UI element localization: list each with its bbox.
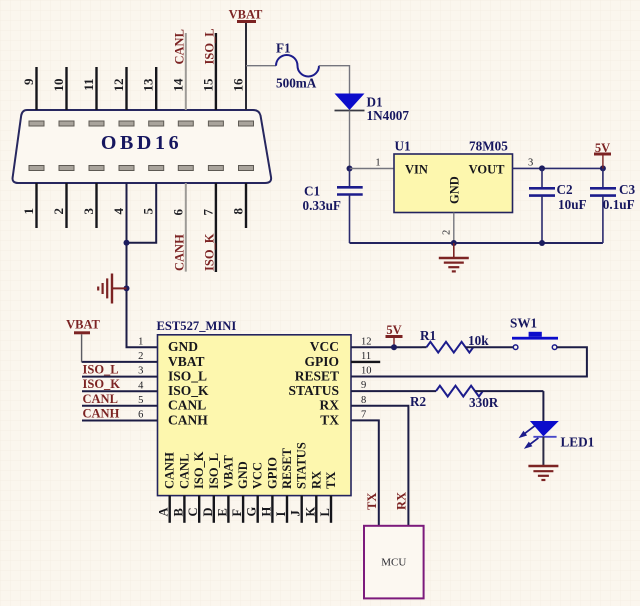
junction pin4/pin5: [124, 240, 130, 246]
wire SW1 to RESET pin 10: [351, 347, 587, 376]
svg-text:1: 1: [138, 337, 143, 348]
pin 9: [21, 67, 37, 110]
U2 bottom pin K: [303, 496, 317, 523]
svg-text:ISO_K: ISO_K: [202, 233, 216, 271]
capacitor C1 0.33uF: [303, 169, 363, 244]
pin 4 wire down to U2 pin1: [111, 183, 158, 347]
wire fuse to D1: [319, 66, 350, 94]
U2 bottom pin L: [318, 496, 332, 523]
U2 pin names right: [288, 339, 339, 427]
svg-text:ISO_K: ISO_K: [83, 377, 121, 391]
svg-text:0.1uF: 0.1uF: [603, 197, 635, 212]
svg-text:GND: GND: [168, 339, 198, 354]
pin 6 wire (CANH): [170, 183, 186, 272]
wire LED1 to ground: [542, 437, 544, 465]
svg-text:1: 1: [375, 158, 380, 169]
U1 pin 2 wire: [442, 213, 454, 244]
svg-text:CANL: CANL: [172, 29, 186, 64]
power port 5V (left of R1): [386, 323, 403, 347]
svg-text:1N4007: 1N4007: [367, 108, 410, 123]
power port VBAT (top): [229, 8, 263, 22]
pin 11: [81, 67, 97, 110]
resistor R1 10k: [420, 328, 513, 353]
svg-text:ISO_K: ISO_K: [168, 383, 209, 398]
svg-text:5: 5: [138, 395, 143, 406]
U2 pin names left: [168, 339, 209, 427]
wire D1 to VIN node: [349, 111, 351, 169]
switch SW1: [510, 316, 558, 350]
svg-text:8: 8: [231, 208, 246, 215]
pin 8: [231, 183, 247, 228]
svg-text:TX: TX: [320, 412, 339, 427]
svg-text:ISO_L: ISO_L: [207, 453, 221, 489]
junction C2 bottom: [539, 240, 545, 246]
svg-text:9: 9: [21, 78, 36, 85]
svg-text:330R: 330R: [469, 395, 499, 410]
svg-text:STATUS: STATUS: [295, 442, 309, 489]
svg-text:10: 10: [51, 79, 66, 92]
svg-text:CANL: CANL: [177, 454, 191, 489]
svg-text:0.33uF: 0.33uF: [303, 198, 341, 213]
svg-text:12: 12: [361, 336, 372, 347]
svg-text:VBAT: VBAT: [168, 354, 205, 369]
capacitor C3 0.1uF: [590, 168, 636, 243]
U2 pin 7 wire TX to MCU: [351, 410, 379, 526]
pin 5 wire: [127, 183, 157, 243]
svg-text:U1: U1: [395, 139, 411, 154]
svg-text:A: A: [157, 507, 171, 516]
svg-text:TX: TX: [365, 493, 379, 510]
svg-text:RX: RX: [320, 398, 340, 413]
junction U1 GND / rail: [451, 240, 457, 246]
svg-text:L: L: [318, 508, 332, 516]
svg-text:6: 6: [170, 209, 185, 216]
svg-text:VCC: VCC: [251, 462, 265, 489]
svg-text:GPIO: GPIO: [304, 354, 339, 369]
svg-text:12: 12: [111, 79, 126, 92]
svg-text:GND: GND: [236, 461, 250, 489]
svg-text:GPIO: GPIO: [265, 457, 279, 489]
svg-text:CANH: CANH: [163, 452, 177, 489]
svg-text:7: 7: [361, 410, 366, 421]
svg-text:RESET: RESET: [280, 447, 294, 489]
svg-text:STATUS: STATUS: [288, 383, 339, 398]
pin 14 wire (CANL): [170, 33, 186, 110]
U2 bottom pin F: [230, 496, 244, 523]
svg-text:LED1: LED1: [561, 435, 595, 450]
svg-text:J: J: [289, 510, 303, 516]
IC U2 EST527_MINI body: [157, 319, 352, 496]
svg-text:GND: GND: [447, 176, 461, 204]
svg-text:8: 8: [361, 395, 366, 406]
junction ground tap: [124, 285, 130, 291]
svg-text:10k: 10k: [468, 333, 489, 348]
connector pads top row: [29, 121, 254, 126]
U2 bottom pin E: [215, 496, 229, 523]
svg-text:16: 16: [231, 78, 246, 92]
svg-text:VBAT: VBAT: [66, 317, 100, 331]
svg-text:ISO_L: ISO_L: [202, 28, 216, 64]
svg-text:VBAT: VBAT: [229, 8, 263, 22]
svg-text:CANL: CANL: [83, 392, 118, 406]
power port 5V (top right): [594, 141, 611, 168]
svg-text:D: D: [201, 507, 215, 516]
svg-text:K: K: [303, 507, 317, 517]
svg-text:4: 4: [111, 208, 126, 215]
svg-text:F: F: [230, 509, 244, 517]
U2 pin 4 wire ISO_K: [82, 380, 158, 391]
svg-text:2: 2: [51, 208, 66, 215]
pin 1: [21, 183, 37, 228]
svg-text:C1: C1: [304, 184, 320, 199]
svg-text:ISO_L: ISO_L: [168, 369, 207, 384]
U2 pin 3 wire ISO_L: [82, 366, 158, 377]
pin 15 wire (ISO_L): [200, 33, 216, 110]
power port VBAT (left): [66, 317, 100, 362]
svg-text:G: G: [245, 507, 259, 517]
U2 bottom pin C: [186, 496, 200, 523]
U2 bottom pin B: [171, 496, 185, 523]
svg-text:VCC: VCC: [310, 339, 339, 354]
svg-text:TX: TX: [324, 472, 338, 489]
svg-text:5: 5: [141, 208, 156, 215]
U2 bottom pin D: [201, 496, 215, 523]
svg-text:CANH: CANH: [172, 234, 186, 271]
svg-text:RX: RX: [309, 471, 323, 489]
svg-text:7: 7: [200, 209, 215, 216]
U2 pin 12 wire VCC: [351, 336, 422, 347]
svg-text:3: 3: [138, 366, 143, 377]
svg-text:ISO_K: ISO_K: [192, 451, 206, 489]
U2 bottom pin I: [274, 496, 288, 523]
junction C2 top: [539, 165, 545, 171]
svg-text:11: 11: [81, 79, 96, 91]
svg-text:2: 2: [138, 351, 143, 362]
U2 pin 5 wire CANL: [82, 395, 158, 406]
pin 3: [81, 183, 97, 228]
svg-text:13: 13: [141, 78, 156, 92]
fuse F1: [276, 41, 319, 91]
node VIN junction: [347, 166, 353, 172]
U2 pin 11 wire GPIO: [351, 351, 380, 362]
wire R2 down to LED1: [542, 391, 544, 421]
resistor R2 330R: [410, 386, 543, 410]
svg-text:10uF: 10uF: [558, 197, 587, 212]
svg-text:C3: C3: [619, 182, 636, 197]
svg-text:VIN: VIN: [405, 163, 428, 177]
pin 16 wire (VBAT): [231, 22, 247, 110]
U2 bottom pin A: [157, 496, 171, 523]
pin 7 wire (ISO_K): [200, 183, 216, 272]
svg-text:2: 2: [442, 230, 453, 235]
svg-text:H: H: [259, 507, 273, 517]
svg-text:R2: R2: [410, 394, 427, 409]
U2 pin names bottom (rotated): [163, 442, 338, 489]
U2 pin 8 wire RX to MCU: [351, 395, 408, 526]
svg-text:E: E: [215, 508, 229, 516]
svg-text:C2: C2: [557, 182, 574, 197]
junction C3 top: [600, 165, 606, 171]
connector pads bottom row: [29, 166, 254, 171]
ground (below U1): [439, 243, 469, 271]
LED LED1: [519, 421, 595, 450]
wire VBAT feed to fuse: [246, 65, 276, 67]
svg-text:CANH: CANH: [168, 412, 208, 427]
svg-text:14: 14: [170, 78, 185, 92]
ground rail: [350, 242, 603, 244]
U2 pin 9 wire STATUS: [351, 380, 436, 391]
U2 pin 2 wire from VBAT: [82, 351, 158, 362]
regulator U1 78M05 body: [394, 139, 513, 213]
svg-text:SW1: SW1: [510, 316, 537, 331]
diode D1 1N4007: [335, 94, 410, 124]
svg-text:6: 6: [138, 410, 143, 421]
svg-text:RESET: RESET: [295, 369, 339, 384]
ground (left, rotated): [98, 274, 126, 304]
pin 13: [141, 67, 157, 110]
capacitor C2 10uF: [529, 168, 587, 243]
svg-text:5V: 5V: [386, 323, 401, 337]
svg-text:CANH: CANH: [83, 407, 120, 421]
svg-text:RX: RX: [394, 492, 408, 510]
connector J OBD16 body: [13, 110, 272, 183]
ground (below LED1): [528, 466, 558, 480]
svg-text:9: 9: [361, 380, 366, 391]
svg-text:15: 15: [200, 78, 215, 92]
U2 bottom pin J: [289, 496, 303, 523]
svg-text:C: C: [186, 507, 200, 516]
svg-text:4: 4: [138, 380, 144, 391]
svg-text:VOUT: VOUT: [469, 163, 506, 177]
pin 10: [51, 67, 67, 110]
pin 12: [111, 67, 127, 110]
wire node to U1 pin 1: [350, 158, 395, 169]
svg-text:ISO_L: ISO_L: [83, 363, 119, 377]
svg-text:B: B: [171, 508, 185, 516]
svg-text:R1: R1: [420, 328, 436, 343]
svg-text:78M05: 78M05: [469, 139, 508, 154]
svg-text:VBAT: VBAT: [221, 455, 235, 489]
svg-text:3: 3: [81, 208, 96, 215]
svg-text:F1: F1: [276, 41, 291, 56]
svg-text:1: 1: [21, 208, 36, 215]
U2 pin 6 wire CANH: [82, 410, 158, 421]
MCU block: [364, 526, 424, 599]
U2 bottom pin G: [245, 496, 259, 523]
svg-text:I: I: [274, 512, 288, 517]
svg-text:OBD16: OBD16: [101, 132, 182, 154]
svg-text:CANL: CANL: [168, 398, 206, 413]
svg-text:EST527_MINI: EST527_MINI: [157, 319, 237, 333]
svg-text:MCU: MCU: [381, 557, 406, 569]
svg-text:3: 3: [528, 158, 533, 169]
U1 pin 3 wire to 5V rail: [513, 158, 603, 169]
U2 bottom pin H: [259, 496, 273, 523]
svg-text:10: 10: [361, 366, 372, 377]
svg-text:11: 11: [361, 351, 371, 362]
svg-text:500mA: 500mA: [276, 76, 317, 91]
pin 2: [51, 183, 67, 228]
junction 5V / pin12: [391, 344, 397, 350]
